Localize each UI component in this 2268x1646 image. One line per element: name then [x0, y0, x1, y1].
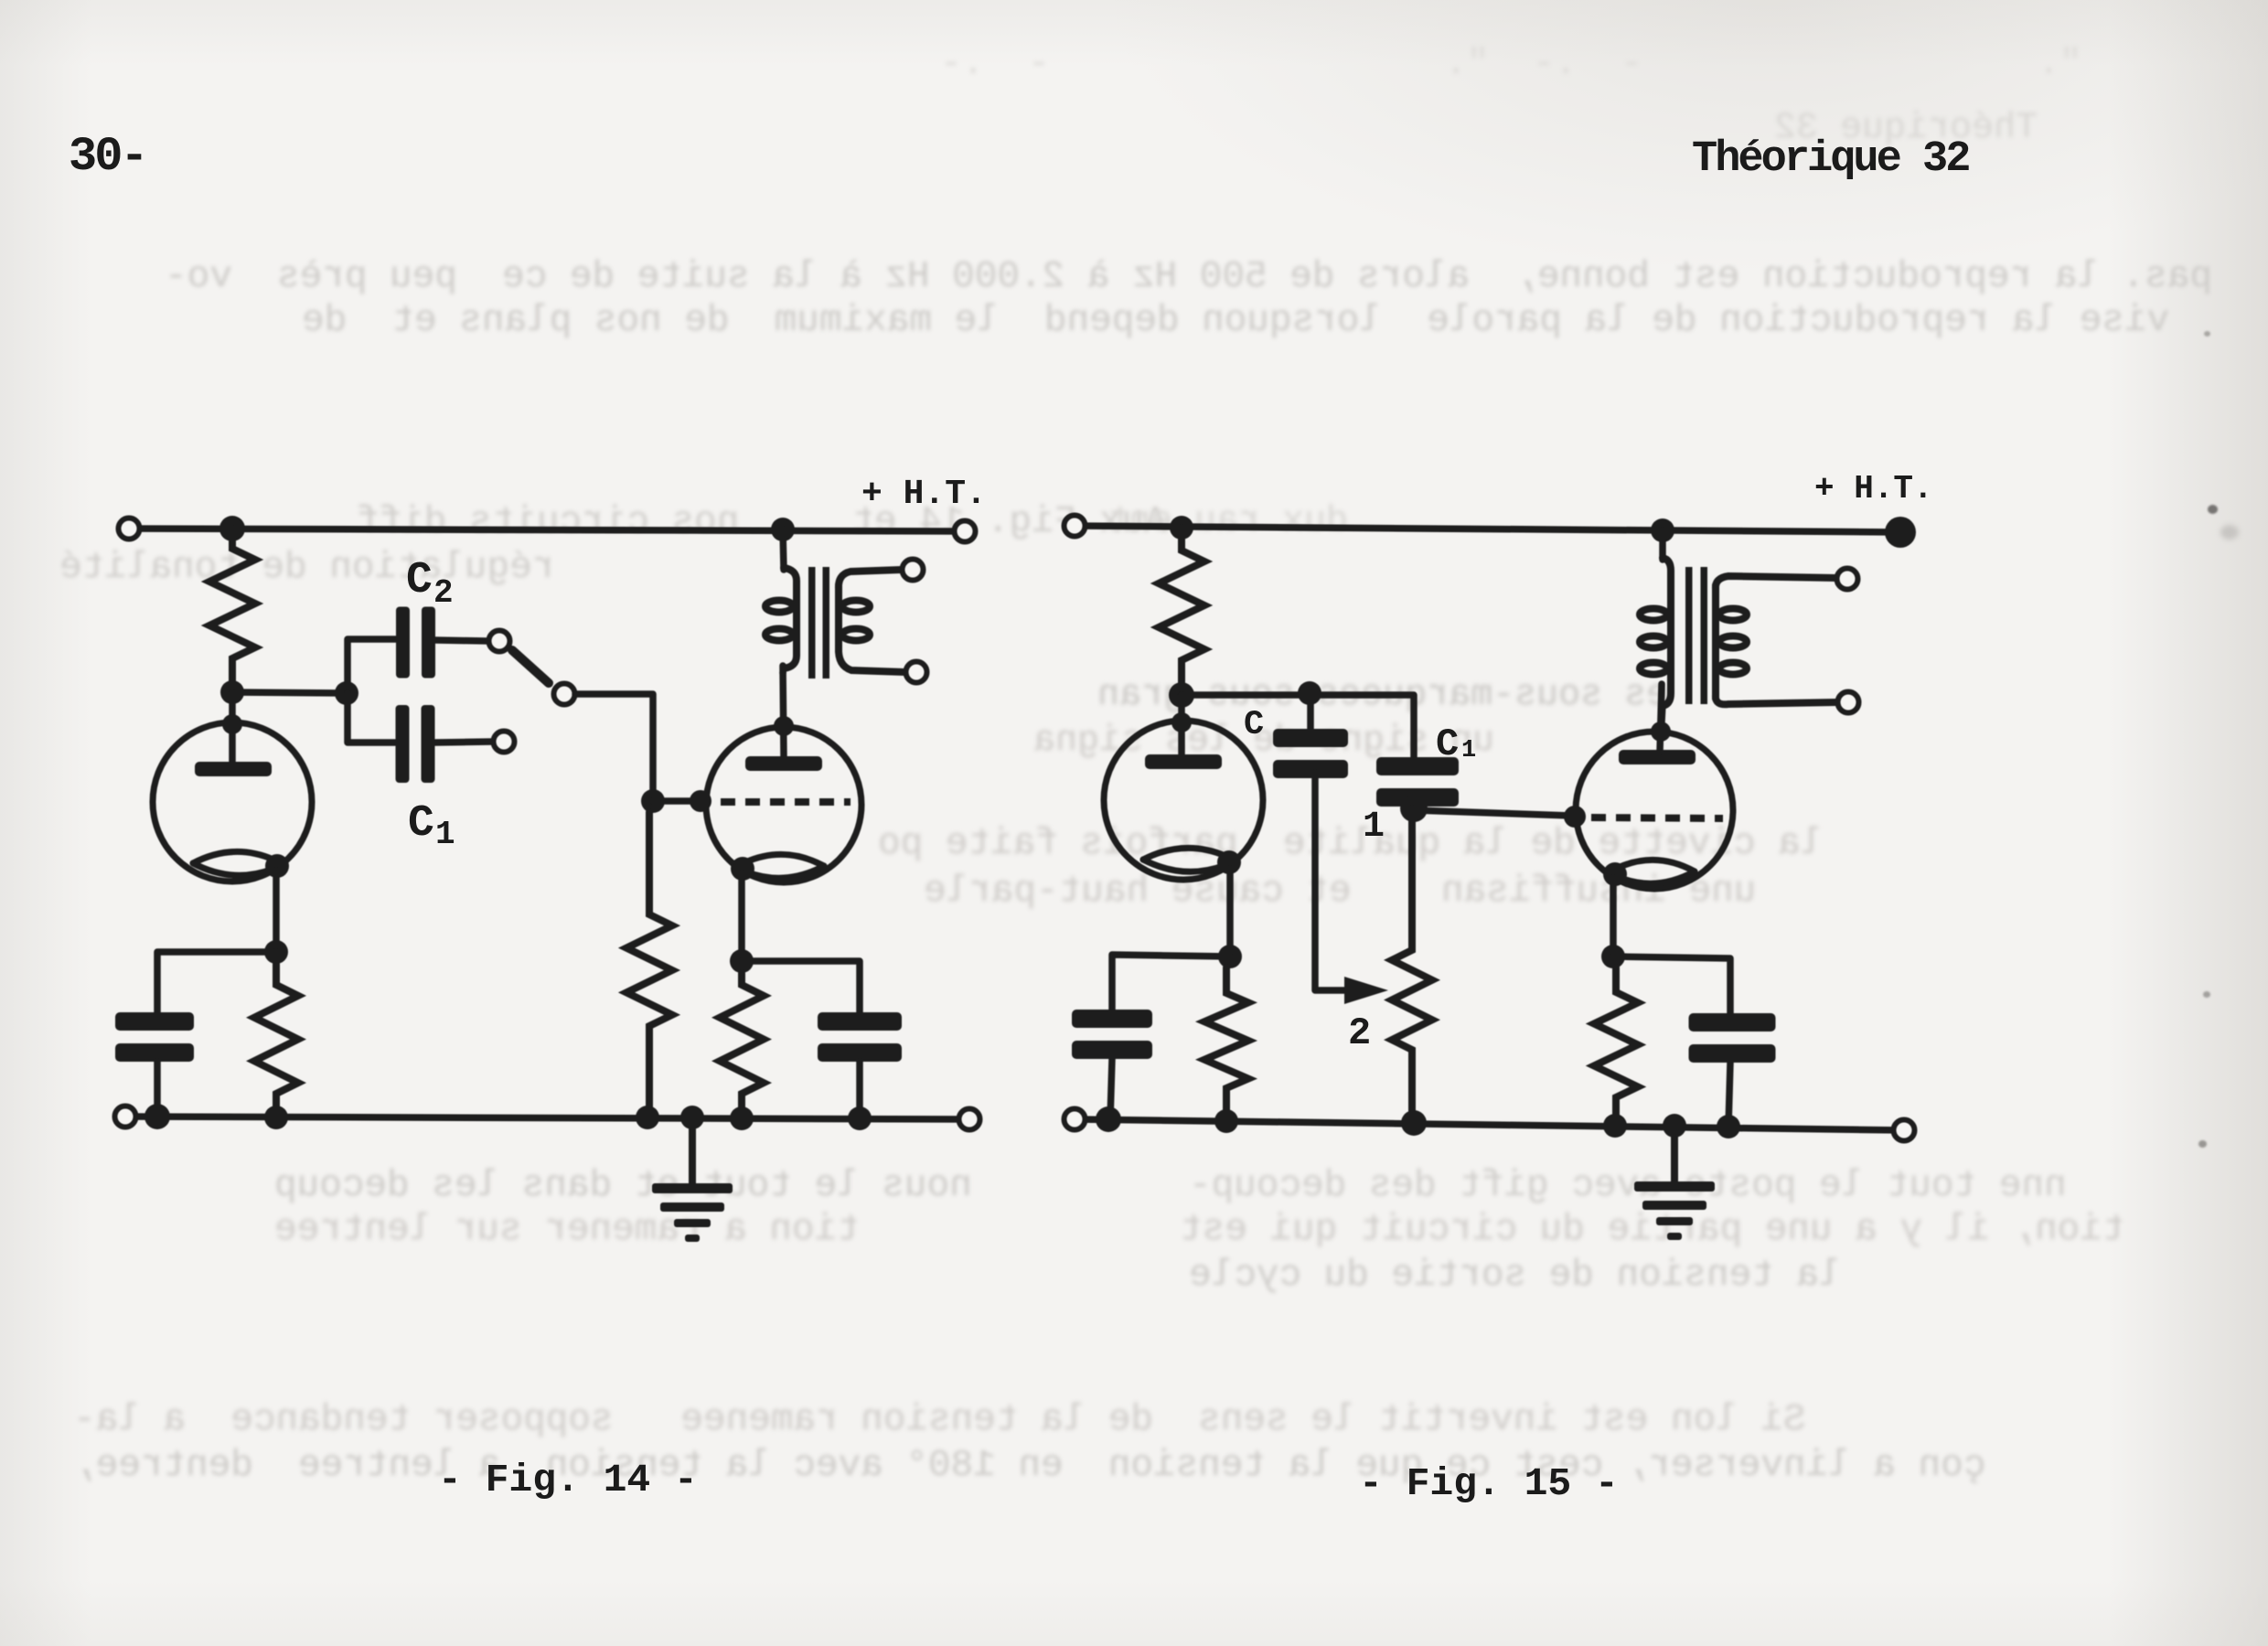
- wire : C1 bottom plate to node 1: [1410, 801, 1417, 806]
- junction : rail to plate resistor of V1: [1170, 516, 1193, 540]
- pin label 2 (potentiometer wiper): [1348, 1011, 1371, 1055]
- junction : ground stem to rail: [680, 1106, 704, 1129]
- caption Fig. 14: [438, 1458, 698, 1502]
- junction : grid lead at envelope of V2: [1564, 806, 1586, 828]
- label +H.T. (Fig.15): [1814, 470, 1933, 508]
- node : Fig.15 H.T. rail left terminal: [1064, 516, 1086, 537]
- junction : cathode resistor V2 to rail: [730, 1106, 754, 1130]
- junction : V1 plate lead crossing envelope: [222, 714, 242, 734]
- junction : V1 cathode resistor to rail: [1214, 1109, 1238, 1133]
- anode plate of V2 (Fig.15): [1619, 750, 1696, 764]
- junction : V2 cathode node: [730, 949, 754, 973]
- wire : C2 right plate to switch contact: [435, 640, 488, 641]
- junction : ground stem to rail: [1663, 1114, 1686, 1138]
- wire : Fig.15 +H.T. supply rail (top): [1075, 526, 1900, 532]
- wire : cathode node to bypass capacitor: [157, 952, 276, 1012]
- ground : Fig.15 chassis ground: [1634, 1126, 1715, 1240]
- capacitor : V1 cathode bypass: [115, 1012, 194, 1062]
- junction : V1 bypass cap to rail: [1096, 1106, 1121, 1132]
- capacitor : V1 cathode bypass (Fig.15): [1072, 1010, 1152, 1059]
- node : ground rail right terminal: [959, 1109, 980, 1130]
- transformer : output transformer primary winding: [765, 529, 797, 673]
- node : switch contact for C2: [489, 631, 510, 652]
- resistor : plate load of triode V1: [209, 529, 255, 692]
- label C2 (Fig.14): [406, 556, 433, 605]
- wire : node 1 to V2 grid: [1414, 810, 1571, 816]
- junction : V1 plate node: [1169, 682, 1194, 708]
- wire : cathode node to bypass capacitor: [1613, 957, 1730, 1013]
- resistor : V2 cathode bias (Fig.15): [1594, 967, 1638, 1126]
- triode V2 (Fig.15) : envelope: [1576, 732, 1733, 889]
- caption Fig. 15: [1359, 1461, 1619, 1506]
- junction : grid leak to rail: [636, 1106, 659, 1129]
- potentiometer : tone control resistance: [1392, 808, 1432, 1123]
- cathode of V2: [731, 854, 824, 881]
- junction : rail to transformer primary: [1651, 518, 1674, 542]
- switch : tone selector blade: [512, 650, 549, 683]
- grid of V2 (dashed): [721, 798, 850, 806]
- capacitor : V2 cathode bypass (Fig.15): [1689, 1013, 1776, 1063]
- junction : cathode resistor V1 to rail: [264, 1106, 288, 1129]
- junction : V1 cathode node: [264, 940, 288, 964]
- pin label 1 (potentiometer top): [1363, 807, 1385, 848]
- resistor : V2 cathode bias: [720, 973, 764, 1117]
- transformer : secondary winding (Fig.15): [1716, 585, 1747, 699]
- wire : bypass capacitor to ground rail: [1110, 1059, 1112, 1119]
- capacitor C1 (tone switch, lower): [396, 705, 435, 783]
- node : Fig.14 H.T. rail right terminal: [955, 521, 976, 542]
- wire : V2 cathode lead down: [1610, 878, 1617, 957]
- junction : grid lead at envelope of V2: [690, 790, 711, 812]
- wire : secondary bottom lead: [839, 647, 905, 672]
- anode plate of V1: [195, 762, 272, 776]
- anode plate of V1 (Fig.15): [1145, 754, 1222, 769]
- wire : V2 plate lead to transformer: [1660, 684, 1662, 752]
- junction : bypass cap V2 to rail: [848, 1106, 872, 1130]
- wire : bypass capacitor to ground rail: [154, 1062, 161, 1117]
- wire : V2 cathode lead down: [738, 873, 745, 961]
- label C1 (Fig.15): [1436, 722, 1459, 766]
- wiper arrow of potentiometer: [1344, 977, 1388, 1004]
- cathode of V2 (Fig.15): [1603, 860, 1695, 886]
- wire : V1 cathode lead down: [1226, 869, 1234, 957]
- junction : V1 plate lead crossing envelope: [1171, 712, 1192, 732]
- junction : V2 cathode resistor to rail: [1603, 1114, 1627, 1138]
- ground : Fig.14 chassis ground: [652, 1117, 733, 1242]
- junction : capacitor branch node: [335, 681, 358, 705]
- transformer core (Fig.15): [1685, 567, 1707, 704]
- triode V1 : envelope: [153, 722, 312, 882]
- junction : rail to plate resistor of V1: [219, 516, 245, 541]
- resistor : V1 cathode bias: [254, 952, 298, 1117]
- wire : V1 plate node to capacitor branch: [232, 692, 347, 693]
- transformer : secondary winding: [839, 585, 870, 651]
- junction : V2 cathode node: [1601, 945, 1625, 968]
- label C (Fig.15): [1244, 706, 1264, 744]
- wire : secondary top lead (Fig.15): [1716, 576, 1836, 589]
- header Théorique 32: [1692, 135, 1968, 184]
- label C1 (Fig.14): [408, 799, 434, 849]
- node : Fig.14 H.T. rail left input terminal: [119, 518, 140, 540]
- junction : V1 plate node (to tone caps): [220, 680, 244, 704]
- wire : secondary top lead: [839, 570, 902, 589]
- wire : V1 cathode lead down: [273, 871, 280, 952]
- wire : V2 plate lead to transformer: [783, 666, 784, 756]
- wire : Fig.14 ground return rail (bottom): [125, 1117, 969, 1119]
- label +H.T. (Fig.14): [861, 475, 987, 514]
- resistor : plate load of triode V1 (Fig.15): [1159, 528, 1204, 695]
- junction : rail to output transformer primary: [771, 518, 795, 541]
- node : secondary terminal bottom (Fig.15): [1838, 692, 1859, 713]
- wire : C bottom plate down to wiper arrow: [1315, 773, 1352, 990]
- junction : bypass cap V1 to rail: [144, 1104, 170, 1129]
- junction : V2 grid node: [641, 789, 665, 813]
- node : secondary terminal top (Fig.15): [1837, 569, 1858, 590]
- wire : secondary bottom lead (Fig.15): [1716, 695, 1836, 704]
- node : open contact for C1: [494, 732, 515, 753]
- junction : V1 cathode node: [1218, 945, 1242, 968]
- node : ground rail left terminal (Fig.15): [1064, 1109, 1086, 1130]
- junction : V2 plate lead crossing envelope: [1651, 721, 1671, 742]
- resistor : V1 cathode bias (Fig.15): [1204, 967, 1248, 1120]
- node : secondary output terminal (bottom): [906, 662, 927, 683]
- page number 30-: [69, 130, 146, 184]
- anode plate of V2: [745, 756, 822, 771]
- wire : cathode node to bypass capacitor: [1112, 955, 1230, 1013]
- triode V1 (Fig.15) : envelope: [1104, 721, 1263, 880]
- wire : branch down to C1 left plate: [348, 693, 395, 743]
- transformer core: [808, 567, 829, 679]
- grid of V2 (dashed, Fig.15): [1591, 818, 1723, 818]
- wire : branch up to C2 left plate: [348, 639, 396, 693]
- wire : C1 right plate to open contact: [435, 742, 493, 743]
- wire : V1 plate lead: [1178, 695, 1185, 760]
- resistor : grid leak of V2: [626, 812, 672, 1117]
- wire : bypass capacitor to ground rail: [1728, 1063, 1730, 1127]
- wire : plate node to C and C1 branch: [1182, 695, 1414, 764]
- wire : cathode node to bypass capacitor: [742, 961, 860, 1013]
- capacitor C1 (coupling to V2 grid): [1376, 757, 1459, 807]
- wire : grid node to tube V2 envelope: [653, 797, 697, 805]
- speck marks: [2204, 331, 2210, 337]
- junction : potentiometer bottom to rail: [1401, 1110, 1427, 1136]
- junction : node 1 (pot top / V2 grid): [1400, 795, 1428, 822]
- node : secondary output terminal (top): [903, 560, 924, 581]
- junction : branch node to capacitor C: [1298, 681, 1321, 705]
- capacitor C2 (tone switch, upper): [396, 607, 435, 679]
- cathode of V1: [193, 851, 289, 878]
- wire : branch down to capacitor C: [1307, 693, 1314, 735]
- cathode of V1 (Fig.15): [1143, 848, 1241, 874]
- wire : bypass capacitor to ground rail: [856, 1062, 863, 1117]
- junction : V2 bypass cap to rail: [1717, 1115, 1740, 1138]
- node : ground rail right terminal (Fig.15): [1894, 1120, 1915, 1141]
- capacitor : V2 cathode bypass: [818, 1012, 902, 1062]
- node : Fig.15 H.T. rail right end (solid): [1885, 517, 1916, 548]
- capacitor C (to tone control wiper): [1273, 729, 1348, 778]
- transformer (Fig.15) : primary winding: [1640, 530, 1671, 722]
- wire : Fig.15 ground return rail (bottom): [1075, 1119, 1904, 1130]
- wire : Fig.14 +H.T. supply rail (top): [129, 529, 965, 531]
- node : switch pivot: [554, 684, 575, 705]
- wire : V1 plate lead: [229, 692, 236, 762]
- node : ground rail left terminal: [115, 1106, 136, 1128]
- wire : switch pivot to V2 grid node: [575, 694, 653, 801]
- junction : V2 plate lead crossing envelope: [774, 716, 794, 736]
- triode V2 : envelope: [706, 727, 861, 882]
